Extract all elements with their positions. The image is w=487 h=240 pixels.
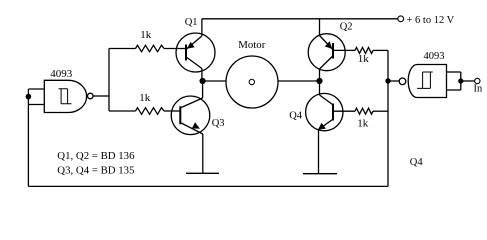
svg-text:1k: 1k xyxy=(358,53,370,65)
wire R3 to right bus xyxy=(373,49,388,51)
ground Q3 emitter xyxy=(186,172,219,174)
wire Q2 base to R3 xyxy=(334,49,355,51)
wire node C to U2 bubble xyxy=(388,80,399,82)
gate U2 NAND 4093 xyxy=(399,65,446,98)
wire U2 input bottom xyxy=(447,89,461,91)
wire gate U1 output xyxy=(93,95,109,97)
svg-text:Q1: Q1 xyxy=(185,17,198,28)
terminal In xyxy=(475,78,480,83)
wire node D to In terminal xyxy=(461,80,475,82)
svg-text:Q2: Q2 xyxy=(340,21,353,32)
wire branch to R2 xyxy=(109,110,136,112)
node U1 input junction xyxy=(26,94,32,100)
wire branch vertical xyxy=(108,49,110,112)
svg-text:Q3, Q4 = BD 135: Q3, Q4 = BD 135 xyxy=(57,164,134,176)
node B motor right xyxy=(316,78,322,84)
wire motor to node B xyxy=(278,80,320,82)
wire R2 to Q3 base xyxy=(164,110,180,112)
wire bottom rail xyxy=(28,185,388,187)
wire branch to R1 xyxy=(109,48,136,50)
wire R4 to right bus xyxy=(373,110,388,112)
wire U2 input top xyxy=(447,71,461,73)
svg-text:+ 6 to 12 V: + 6 to 12 V xyxy=(407,15,455,26)
wire left input vertical xyxy=(27,89,29,186)
wire U2 input tie xyxy=(460,72,462,90)
svg-text:1k: 1k xyxy=(139,92,151,104)
wire 1k to Q1 base xyxy=(164,48,185,50)
svg-text:1k: 1k xyxy=(140,29,152,41)
svg-text:In: In xyxy=(474,84,483,95)
node A motor left xyxy=(200,78,206,84)
motor M1 xyxy=(226,56,278,108)
wire right bus vertical xyxy=(387,50,389,186)
svg-text:4093: 4093 xyxy=(50,68,72,80)
ground Q4 emitter xyxy=(303,173,337,175)
transistor Q4 xyxy=(306,81,343,173)
svg-text:Q4: Q4 xyxy=(289,110,303,121)
node C right bus xyxy=(385,78,390,83)
gate U1 NAND 4093 xyxy=(44,80,93,112)
wire +V top rail xyxy=(202,18,398,20)
wire U1 input top xyxy=(28,88,44,90)
transistor Q1 xyxy=(176,19,215,81)
resistor R3 1k xyxy=(355,47,373,53)
wire U1 input bottom xyxy=(28,104,44,106)
svg-text:Motor: Motor xyxy=(238,39,265,51)
resistor R4 1k xyxy=(355,108,373,114)
svg-text:Q3: Q3 xyxy=(212,118,225,129)
svg-text:4093: 4093 xyxy=(424,51,445,62)
resistor R1 1k xyxy=(136,45,165,52)
svg-text:Q1, Q2 = BD 136: Q1, Q2 = BD 136 xyxy=(57,150,135,162)
svg-text:1k: 1k xyxy=(357,117,369,129)
wire Q4 base to R4 xyxy=(334,110,355,112)
svg-text:Q4: Q4 xyxy=(410,157,424,168)
transistor Q3 xyxy=(171,81,210,173)
transistor Q2 xyxy=(308,19,345,81)
resistor R2 1k xyxy=(136,108,165,115)
node D U2 input junction xyxy=(458,78,463,83)
terminal +V xyxy=(398,16,404,22)
wire node A to motor xyxy=(203,80,226,82)
